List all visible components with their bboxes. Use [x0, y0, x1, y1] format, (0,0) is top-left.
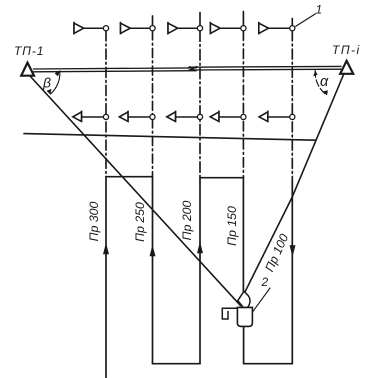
profile line Пр150 below machine — [243, 326, 245, 363]
direction arrow on Пр250 — [150, 245, 156, 256]
svg-text:ТП-i: ТП-i — [332, 43, 361, 57]
direction arrow on Пр300 — [103, 243, 109, 255]
direction arrow on Пр100 pointing down — [290, 245, 296, 256]
svg-text:2: 2 — [261, 275, 269, 289]
bottom U connector Пр250-Пр200 — [153, 363, 201, 365]
profile line Пр100 solid lower — [291, 182, 293, 364]
stub above circle line 2 — [152, 16, 154, 25]
profile line Пр200 solid lower — [199, 178, 201, 364]
profile line Пр250 solid lower — [152, 177, 154, 364]
svg-text:Пр 150: Пр 150 — [225, 206, 239, 246]
svg-text:α: α — [320, 74, 329, 90]
marker flag row1 col4 — [210, 22, 246, 35]
dredge mast diamond — [238, 291, 250, 307]
buoy flag row2 col5 — [259, 111, 295, 122]
dredge body box — [237, 307, 252, 326]
sight ray from ТП-1 to dredge — [30, 76, 241, 306]
stub above circle line 4 — [242, 12, 244, 26]
profile line Пр300 dash-dot upper — [105, 31, 107, 177]
dredge left arm hook — [222, 308, 237, 319]
svg-text:Пр 250: Пр 250 — [133, 202, 147, 242]
marker flag row1 col2 — [121, 22, 156, 35]
stub above circle line 5 — [291, 19, 293, 26]
horizontal boundary line — [24, 134, 316, 141]
stub above circle line 3 — [199, 13, 201, 26]
tie line between Пр300 and Пр250 — [106, 176, 153, 178]
beta arc arrowhead bottom — [47, 89, 52, 95]
svg-text:β: β — [42, 75, 51, 91]
buoy flag row2 col1 — [73, 111, 109, 122]
svg-text:ТП-1: ТП-1 — [14, 44, 44, 58]
angle alpha arc — [315, 70, 326, 95]
profile line Пр150 solid upper part — [242, 178, 244, 293]
svg-text:Пр 300: Пр 300 — [87, 202, 101, 242]
marker flag row1 col1 — [74, 22, 109, 35]
svg-text:Пр 200: Пр 200 — [180, 201, 194, 241]
alpha arc arrowhead bottom — [323, 90, 328, 95]
leader line to label 1 — [296, 14, 316, 26]
buoy flag row2 col3 — [167, 111, 203, 122]
angle beta arc — [51, 71, 60, 94]
svg-text:Пр 100: Пр 100 — [262, 232, 291, 274]
marker flag row1 col5 — [259, 22, 295, 35]
beta arc arrowhead top — [55, 71, 60, 77]
baseline jog mark — [189, 66, 197, 71]
marker flag row1 col3 — [168, 22, 203, 35]
profile line Пр200 dash-dot upper — [199, 31, 201, 178]
profile line Пр300 solid lower — [105, 177, 107, 378]
station triangle ТП-1 — [21, 63, 34, 76]
profile line Пр250 dash-dot upper — [152, 31, 154, 177]
baseline double line left segment — [34, 68, 197, 72]
direction arrow on Пр200 — [197, 242, 203, 254]
profile line Пр150 dash-dot upper — [242, 31, 244, 178]
buoy flag row2 col4 — [210, 111, 246, 122]
sight ray from ТП-i to dredge — [245, 74, 344, 293]
svg-text:1: 1 — [316, 3, 323, 17]
leader line to label 2 — [252, 288, 270, 312]
tie line between Пр200 and Пр150 — [200, 177, 243, 179]
profile line Пр100 dash-dot upper — [291, 31, 293, 182]
station triangle ТП-i — [340, 61, 353, 74]
bottom U connector Пр150-Пр100 — [244, 363, 293, 365]
baseline double line right segment — [189, 66, 341, 70]
buoy flag row2 col2 — [119, 111, 155, 122]
alpha arc arrowhead top — [313, 71, 317, 77]
